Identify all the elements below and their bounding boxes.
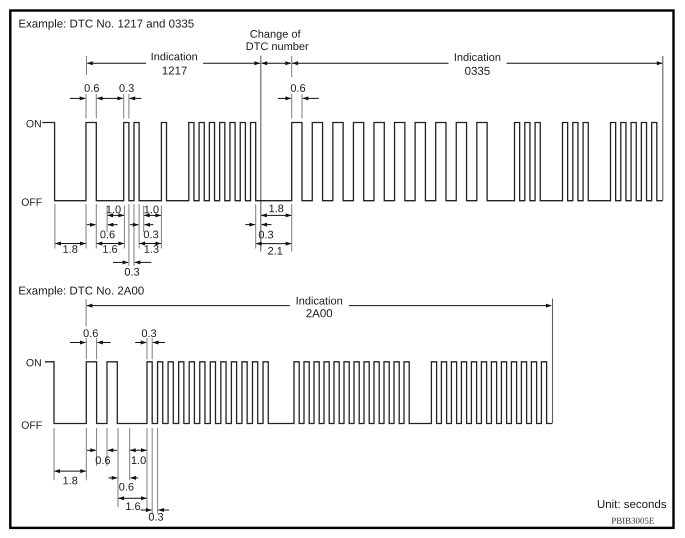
ext lines wf2 bbox=[53, 428, 55, 480]
dim 0.6 over first pulse wf1 bbox=[85, 94, 87, 119]
dim 0.3 bottom wf1 (gap inside digit 2) bbox=[113, 261, 128, 263]
chain arrows between 0.6 and 0.3 dims wf1 bbox=[97, 97, 123, 99]
ext lines group2 wf1 bbox=[128, 204, 130, 266]
indication 0335 dimension bbox=[291, 56, 293, 77]
dim 1.6 wf2 bbox=[119, 497, 147, 499]
unit label bbox=[598, 500, 666, 508]
dim 0.3 wf1 after last pulse bbox=[245, 224, 255, 226]
dim 0.6 over first 0335 pulse bbox=[291, 94, 293, 119]
dim 2.1 wf1 bbox=[256, 243, 291, 245]
dim 0.3 wf2 (gap inside digit A) bbox=[141, 509, 152, 511]
ext lines group1 wf1 bbox=[54, 204, 56, 249]
dim 1.8 wf1 initial off bbox=[55, 243, 85, 245]
waveform 2 (DTC 2A00 blink pattern) bbox=[45, 362, 552, 424]
waveform 1 end extension line bbox=[662, 56, 664, 200]
dim 0.6 over first pulse wf2 bbox=[85, 338, 87, 359]
OFF label wf2 bbox=[22, 421, 42, 428]
title example 2 bbox=[19, 286, 144, 297]
dim 1.8 wf2 initial off bbox=[55, 470, 86, 472]
waveform 1 (DTC 1217 and 0335 blink pattern) bbox=[42, 123, 663, 201]
indication 1217 dimension bbox=[86, 56, 88, 75]
dim 0.3 over digit-2 first pulse wf1 bbox=[123, 94, 125, 119]
dim 0.3 over digit-A first pulse wf2 bbox=[146, 338, 148, 359]
dim 1.0 wf1 left bbox=[108, 214, 124, 216]
dim 1.0 wf2 bbox=[130, 449, 146, 451]
dim 0.3 wf1 (gap before digit3 pulse) bbox=[130, 224, 138, 226]
OFF label wf1 bbox=[22, 198, 42, 205]
ext lines group3 wf1 bbox=[255, 204, 257, 249]
dim 1.0 wf1 right bbox=[144, 214, 161, 216]
figure code PBIB3005E bbox=[612, 518, 654, 524]
dim 0.6 wf2 (0.6 after second pulse) bbox=[109, 477, 118, 479]
dim 0.6 wf2 (gap between 0.6 pulses) bbox=[87, 449, 96, 451]
indication 2A00 dimension bbox=[85, 299, 87, 326]
gap dimension between indications bbox=[262, 62, 291, 64]
dim 0.6 wf1 (gap after first pulse) bbox=[87, 224, 96, 226]
title example 1 bbox=[19, 19, 193, 30]
change of DTC number label bbox=[250, 30, 300, 40]
change divider line bbox=[260, 56, 262, 252]
ON label wf1 bbox=[26, 120, 40, 127]
dim 1.6 wf1 bbox=[97, 243, 124, 245]
dim 1.3 wf1 bbox=[140, 243, 161, 245]
waveform 2 end extension line bbox=[552, 299, 554, 424]
ON label wf2 bbox=[26, 359, 40, 366]
dim 1.8 wf1 change gap bbox=[261, 214, 291, 216]
